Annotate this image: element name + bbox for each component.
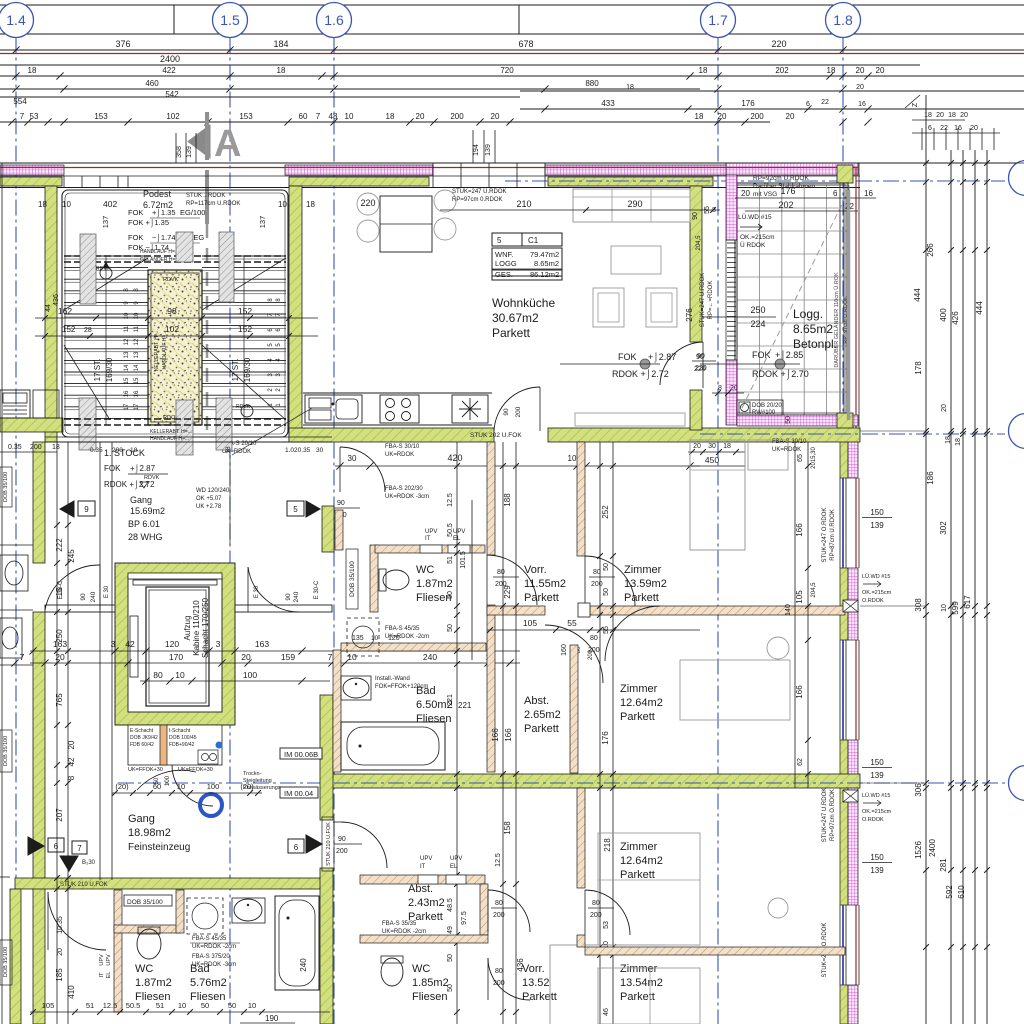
svg-text:50: 50: [154, 777, 160, 784]
svg-text:UPV: UPV: [425, 529, 437, 535]
axis header frame: [0, 4, 1024, 6]
svg-text:16: 16: [134, 390, 140, 397]
wall divider bottom vertical: [577, 788, 585, 888]
right dim horizontal connectors: [892, 162, 1024, 164]
svg-text:8: 8: [67, 775, 76, 780]
svg-text:UK=RDOK -2cm: UK=RDOK -2cm: [382, 929, 426, 935]
green wall living segment: [548, 177, 713, 186]
svg-text:Wohnküche: Wohnküche: [492, 296, 555, 310]
svg-text:DOB 35/100: DOB 35/100: [3, 472, 9, 502]
svg-text:20: 20: [960, 112, 968, 119]
stair treads left: [64, 255, 148, 257]
svg-text:542: 542: [165, 90, 179, 99]
svg-text:BP 6.01: BP 6.01: [128, 519, 160, 529]
svg-text:101.5: 101.5: [460, 551, 467, 569]
svg-text:137: 137: [101, 216, 110, 229]
svg-text:1.8: 1.8: [833, 12, 853, 28]
svg-text:90: 90: [503, 408, 510, 416]
axis line 1.8: [842, 38, 844, 1024]
stair walk line left: [105, 256, 107, 425]
svg-text:UK=RDOK -3cm: UK=RDOK -3cm: [192, 962, 236, 968]
left edge wall bottom: [10, 889, 21, 1024]
svg-text:20: 20: [876, 66, 885, 75]
svg-text:LÜ.WD #15: LÜ.WD #15: [862, 792, 890, 799]
svg-text:2400: 2400: [160, 54, 180, 64]
dim chain elevator row2: [30, 662, 520, 664]
svg-text:102: 102: [165, 324, 179, 334]
svg-text:12.64m2: 12.64m2: [620, 855, 663, 867]
svg-text:7: 7: [328, 652, 333, 662]
room divider bottom horiz: [585, 947, 845, 955]
svg-text:E 30: E 30: [254, 585, 260, 598]
svg-text:140: 140: [785, 604, 792, 616]
LUWD vent block east low: [843, 790, 858, 802]
svg-text:152: 152: [238, 324, 252, 334]
svg-text:IM 00.06B: IM 00.06B: [284, 750, 318, 759]
svg-text:250: 250: [750, 305, 765, 315]
axis line 1.4: [15, 38, 17, 1024]
svg-text:10: 10: [134, 312, 140, 319]
svg-text:DOB 35/100: DOB 35/100: [127, 899, 163, 906]
svg-text:Zimmer: Zimmer: [620, 841, 658, 853]
svg-text:8.65m2: 8.65m2: [793, 322, 833, 336]
kitchen door: [494, 387, 540, 431]
svg-text:Parkett: Parkett: [624, 592, 659, 604]
svg-text:186: 186: [926, 471, 935, 485]
svg-text:153: 153: [94, 112, 108, 121]
dim chain elevator row3: [140, 680, 330, 682]
red facade line on wall: [0, 167, 858, 169]
svg-text:880: 880: [585, 79, 599, 88]
east room dim verticals: [794, 442, 796, 788]
svg-text:Parkett: Parkett: [620, 711, 655, 723]
svg-text:10: 10: [248, 1001, 256, 1010]
svg-text:100: 100: [243, 670, 257, 680]
mid dim verticals: [456, 442, 458, 1024]
svg-text:18: 18: [827, 66, 836, 75]
stair bottom wall lines: [45, 441, 332, 443]
dim 450 below loggia: [688, 451, 745, 453]
furniture Zimmer 13.54: [598, 968, 700, 1024]
elevator door inner: [130, 616, 138, 677]
svg-text:Fliesen: Fliesen: [135, 991, 170, 1003]
svg-text:Feinsteinzeug: Feinsteinzeug: [128, 842, 190, 853]
window sill lines north: [0, 175, 860, 177]
loggia drain box: [737, 400, 783, 415]
DOB box bottom: [124, 895, 172, 906]
svg-text:222: 222: [55, 538, 64, 552]
svg-text:250: 250: [55, 629, 64, 643]
svg-text:220: 220: [694, 366, 706, 373]
svg-text:10: 10: [371, 635, 379, 642]
cupboard grey bottom: [549, 945, 551, 1024]
loggia east railing lines: [839, 183, 841, 430]
axis line 1.7: [717, 38, 719, 1024]
insulation magenta living: [545, 165, 733, 175]
svg-text:137: 137: [258, 216, 267, 229]
svg-text:44: 44: [45, 304, 52, 312]
svg-text:UK=FFOK+30: UK=FFOK+30: [128, 767, 163, 773]
svg-text:20: 20: [416, 112, 425, 121]
svg-text:50: 50: [603, 588, 610, 596]
svg-text:2015,30: 2015,30: [811, 447, 817, 469]
svg-text:30.67m2: 30.67m2: [492, 311, 539, 325]
svg-text:218: 218: [603, 838, 612, 852]
svg-text:IT: IT: [425, 536, 431, 542]
svg-text:RP=92cm Ü.RDOK: RP=92cm Ü.RDOK: [753, 174, 809, 182]
Bad walls: [333, 650, 341, 772]
svg-text:1526: 1526: [914, 841, 923, 859]
svg-text:Podest: Podest: [143, 189, 172, 199]
svg-text:UPV: UPV: [106, 954, 112, 966]
svg-text:450: 450: [705, 455, 719, 465]
svg-text:E 30: E 30: [104, 585, 110, 598]
svg-text:STUK 202 U.FOK: STUK 202 U.FOK: [470, 432, 522, 439]
svg-text:207: 207: [55, 808, 64, 822]
svg-text:UPV: UPV: [453, 529, 465, 535]
svg-text:202: 202: [775, 66, 789, 75]
svg-text:9: 9: [84, 505, 89, 514]
svg-text:15: 15: [134, 377, 140, 384]
svg-text:188: 188: [503, 493, 512, 507]
svg-text:FDB 60/42: FDB 60/42: [130, 742, 154, 748]
section marker A triangle: [188, 125, 210, 158]
svg-text:150: 150: [870, 758, 884, 767]
svg-text:178: 178: [914, 361, 923, 375]
axis circle right y783: [1009, 766, 1024, 801]
section marker 5: [287, 501, 304, 516]
axis line 1.6: [333, 38, 335, 1024]
north wall line: [0, 162, 1024, 164]
apartment separation wall: [332, 774, 860, 788]
svg-text:STUK 210 U.FOK: STUK 210 U.FOK: [326, 822, 332, 866]
svg-text:200: 200: [750, 112, 764, 121]
svg-text:5: 5: [293, 505, 298, 514]
svg-text:240: 240: [423, 652, 437, 662]
corridor arc big: [172, 765, 213, 806]
svg-text:STUK 210 U.FOK: STUK 210 U.FOK: [60, 882, 108, 888]
svg-text:53: 53: [603, 921, 610, 929]
svg-text:139: 139: [186, 146, 193, 158]
corridor dim row: [112, 792, 262, 794]
svg-text:UK +2.78: UK +2.78: [196, 504, 222, 510]
svg-text:1.7: 1.7: [708, 12, 728, 28]
svg-text:720: 720: [500, 66, 514, 75]
left kitchen top fixtures: [0, 390, 30, 418]
svg-text:20: 20: [718, 112, 727, 121]
STUK rotated boxed label entry: [322, 817, 334, 871]
svg-text:200: 200: [493, 980, 505, 987]
svg-text:2.43m2: 2.43m2: [408, 897, 445, 909]
axis circle 1.8: [826, 3, 861, 38]
elevator cabin: [146, 587, 209, 706]
svg-text:50: 50: [785, 416, 792, 424]
svg-text:HANDLAUF H=...: HANDLAUF H=...: [140, 249, 179, 255]
axis line horizontal B (y181): [505, 180, 1005, 182]
svg-text:276: 276: [685, 308, 694, 322]
svg-text:Abst.: Abst.: [524, 695, 549, 707]
svg-text:Gang: Gang: [128, 813, 155, 825]
svg-text:204,5: 204,5: [811, 582, 817, 598]
svg-text:185: 185: [55, 968, 64, 982]
svg-text:15: 15: [124, 377, 130, 384]
svg-text:1.85m2: 1.85m2: [412, 977, 449, 989]
svg-text:18: 18: [277, 66, 286, 75]
svg-text:RP=97cm 0.RDOK: RP=97cm 0.RDOK: [452, 197, 503, 203]
svg-text:100: 100: [165, 775, 171, 786]
svg-text:200: 200: [493, 912, 505, 919]
bathtub bottom: [275, 896, 319, 990]
svg-text:16: 16: [954, 125, 962, 132]
svg-text:240: 240: [90, 591, 97, 602]
svg-text:433: 433: [601, 99, 615, 108]
svg-text:3: 3: [111, 639, 116, 649]
IM labels: [280, 748, 322, 759]
svg-text:DOB 35/100: DOB 35/100: [3, 736, 9, 766]
svg-text:WC: WC: [416, 564, 434, 576]
stair room border: [62, 190, 288, 437]
stair handrail dashed bottom: [64, 418, 286, 420]
svg-text:(20): (20): [115, 782, 129, 791]
svg-text:610: 610: [957, 885, 966, 899]
svg-text:50: 50: [447, 954, 454, 962]
svg-text:DOB JK9/42: DOB JK9/42: [130, 735, 158, 741]
svg-text:160: 160: [561, 644, 568, 656]
dimension line 554/433/176: [0, 96, 520, 98]
svg-text:20: 20: [936, 112, 944, 119]
svg-text:WNF.: WNF.: [495, 250, 513, 259]
svg-text:166: 166: [795, 685, 804, 699]
right mid dim verticals: [599, 442, 601, 1024]
svg-text:+⌡1.35: +⌡1.35: [152, 208, 176, 218]
svg-text:STUK=247 O.RDOK: STUK=247 O.RDOK: [822, 508, 828, 563]
svg-text:Ü RDOK: Ü RDOK: [740, 241, 766, 249]
svg-text:RP=←=RDOK: RP=←=RDOK: [708, 281, 714, 320]
svg-text:18: 18: [723, 443, 731, 450]
svg-text:20: 20: [491, 112, 500, 121]
svg-text:OK.=215cm: OK.=215cm: [862, 809, 892, 815]
svg-text:62: 62: [797, 758, 804, 766]
dim 105 55: [487, 629, 700, 631]
svg-text:86.12m2: 86.12m2: [530, 270, 559, 279]
svg-text:+⌡2.87: +⌡2.87: [648, 352, 676, 363]
svg-text:290: 290: [627, 199, 642, 209]
insulation magenta kitchen: [285, 165, 433, 175]
svg-text:10: 10: [177, 782, 185, 791]
svg-text:A: A: [214, 123, 241, 165]
svg-text:105: 105: [795, 590, 804, 604]
loggia border: [735, 183, 848, 415]
svg-text:46: 46: [603, 1008, 610, 1016]
svg-text:220: 220: [360, 198, 375, 208]
svg-text:80: 80: [590, 635, 598, 642]
svg-text:436: 436: [53, 294, 60, 306]
svg-text:Gang: Gang: [130, 495, 152, 505]
sofa: [573, 189, 690, 222]
svg-text:220: 220: [771, 39, 786, 49]
axis line 1.5: [229, 38, 231, 1024]
svg-text:Abst.: Abst.: [408, 883, 433, 895]
svg-text:308: 308: [914, 598, 923, 612]
svg-text:80: 80: [495, 900, 503, 907]
svg-text:98: 98: [167, 306, 177, 316]
svg-text:30: 30: [708, 443, 716, 450]
LUWD vent block east mid: [843, 600, 858, 612]
left dim verticals: [56, 442, 58, 1024]
svg-text:200: 200: [591, 581, 603, 588]
svg-text:420: 420: [447, 453, 462, 463]
svg-text:FBA-S 35/35: FBA-S 35/35: [382, 921, 417, 927]
svg-text:176: 176: [601, 731, 610, 745]
svg-text:1.6: 1.6: [324, 12, 344, 28]
svg-text:176: 176: [780, 186, 795, 196]
svg-text:STUK=247 Ü.RDOK: STUK=247 Ü.RDOK: [452, 188, 507, 195]
svg-text:30: 30: [348, 454, 357, 463]
svg-text:18.98m2: 18.98m2: [128, 827, 171, 839]
svg-text:13.54m2: 13.54m2: [620, 977, 663, 989]
svg-text:UK=RDOK -2cm: UK=RDOK -2cm: [385, 634, 429, 640]
door arc Vorr bottom lower: [488, 958, 530, 1000]
svg-text:51: 51: [156, 1001, 164, 1010]
svg-text:200: 200: [515, 406, 522, 417]
svg-text:169/30: 169/30: [243, 357, 252, 382]
svg-text:UPV: UPV: [99, 954, 105, 966]
svg-text:30: 30: [316, 447, 324, 454]
svg-text:10: 10: [175, 670, 185, 680]
svg-text:15: 15: [55, 587, 64, 596]
svg-text:166: 166: [491, 728, 500, 742]
svg-text:150: 150: [870, 853, 884, 862]
svg-text:10: 10: [62, 200, 71, 209]
svg-text:18: 18: [695, 112, 704, 121]
svg-text:FDB+90/42: FDB+90/42: [169, 742, 195, 748]
svg-text:358: 358: [176, 146, 183, 158]
svg-text:12.5: 12.5: [495, 853, 502, 867]
svg-text:EL: EL: [106, 972, 112, 979]
svg-text:10: 10: [124, 312, 130, 319]
door arc Vorr: [487, 555, 537, 605]
svg-text:302: 302: [939, 521, 948, 535]
svg-text:51: 51: [447, 556, 454, 564]
green wall west segment: [0, 177, 62, 186]
bottom apartment west wall: [320, 695, 333, 820]
svg-text:13: 13: [134, 351, 140, 358]
svg-text:Aufzug: Aufzug: [183, 616, 192, 641]
svg-text:10: 10: [345, 112, 354, 121]
svg-text:Zimmer: Zimmer: [620, 683, 658, 695]
svg-text:Fliesen: Fliesen: [416, 713, 451, 725]
svg-text:90: 90: [692, 212, 699, 220]
svg-text:678: 678: [518, 39, 533, 49]
stair west wall: [45, 186, 57, 442]
bottom dim line: [30, 1011, 330, 1013]
svg-text:240: 240: [299, 958, 308, 972]
stair treads right: [202, 255, 286, 257]
svg-text:RP=97cm O.RDOK: RP=97cm O.RDOK: [830, 789, 836, 841]
svg-text:592: 592: [945, 885, 954, 899]
loggia door arc: [660, 342, 703, 385]
svg-text:221: 221: [458, 701, 472, 710]
svg-text:90: 90: [285, 593, 292, 601]
door arc Zimmer 12.64 bottom: [585, 890, 630, 935]
svg-text:WD 120/240: WD 120/240: [196, 488, 230, 494]
svg-text:16: 16: [858, 101, 866, 108]
svg-text:245: 245: [67, 549, 76, 563]
svg-text:FOK=FFOK+120cm: FOK=FFOK+120cm: [375, 684, 428, 690]
svg-text:224: 224: [750, 319, 765, 329]
dim chain elevator row1: [30, 650, 520, 652]
svg-text:10: 10: [278, 200, 287, 209]
svg-text:Install.-Wand: Install.-Wand: [375, 676, 410, 682]
svg-text:105: 105: [42, 1001, 55, 1010]
svg-text:166: 166: [504, 728, 513, 742]
svg-text:28: 28: [84, 327, 92, 334]
svg-text:3: 3: [216, 639, 221, 649]
svg-text:617: 617: [963, 595, 972, 609]
divider lower vertical: [570, 645, 578, 773]
WC upper toilet: [383, 570, 409, 590]
svg-text:LÜ.WD #15: LÜ.WD #15: [862, 573, 890, 580]
svg-text:WC: WC: [412, 963, 430, 975]
svg-text:200: 200: [590, 912, 602, 919]
window sill living south: [575, 413, 685, 426]
svg-text:UPV: UPV: [420, 856, 432, 862]
svg-text:17: 17: [134, 403, 140, 410]
svg-text:176: 176: [741, 99, 755, 108]
svg-text:50: 50: [201, 1001, 209, 1010]
svg-text:170: 170: [169, 652, 183, 662]
door arc Vorr bottom top: [488, 890, 530, 932]
top right small dimension chains: [921, 128, 923, 150]
loggia slope line: [742, 196, 846, 408]
svg-text:50.5: 50.5: [447, 523, 454, 537]
svg-text:FBA-S 45/35: FBA-S 45/35: [385, 626, 420, 632]
svg-text:IM 00.04: IM 00.04: [284, 789, 313, 798]
corridor east wall green stub: [322, 506, 334, 552]
loggia green corner SE: [837, 413, 853, 430]
svg-text:Parkett: Parkett: [524, 723, 559, 735]
svg-text:13.52: 13.52: [522, 977, 550, 989]
dimension line 422/720/202: [0, 75, 1024, 77]
svg-text:80: 80: [153, 670, 163, 680]
svg-text:102: 102: [166, 112, 180, 121]
svg-text:400: 400: [939, 308, 948, 322]
door arc west room: [340, 447, 385, 492]
svg-text:20: 20: [693, 443, 701, 450]
svg-text:DOB 35/100: DOB 35/100: [3, 947, 9, 977]
svg-text:80: 80: [592, 900, 600, 907]
corridor east wall: [487, 442, 495, 555]
dimension line row 376/184/678/220: [0, 49, 1024, 51]
east windows: [839, 478, 841, 568]
svg-text:97.5: 97.5: [461, 911, 468, 925]
section marker row 845 left: [28, 837, 44, 855]
loggia south insulation: [737, 415, 858, 426]
grey hatch piers stair: [80, 234, 96, 304]
door arc corridor east: [248, 567, 300, 612]
WC bottom walls: [114, 890, 122, 1012]
svg-text:RDVK: RDVK: [96, 266, 111, 272]
E-Schacht rooms: [128, 725, 222, 765]
coffee table: [611, 246, 661, 274]
svg-text:Parkett: Parkett: [620, 869, 655, 881]
svg-text:20: 20: [970, 125, 978, 132]
svg-text:1.020.35: 1.020.35: [285, 447, 311, 454]
svg-text:16: 16: [124, 390, 130, 397]
svg-text:90: 90: [80, 593, 87, 601]
svg-text:169/30: 169/30: [105, 357, 114, 382]
living south wall: [289, 428, 494, 442]
